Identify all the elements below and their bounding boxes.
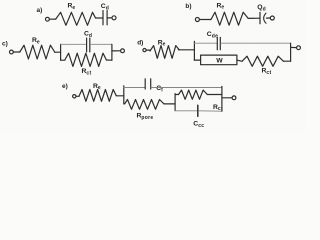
CPE Qd arc — [264, 13, 266, 23]
terminal d-left — [143, 49, 146, 52]
wire — [178, 49, 194, 51]
wire — [237, 60, 242, 61]
wire — [116, 95, 124, 97]
svg-text:d): d) — [137, 39, 143, 46]
wire — [96, 17, 103, 19]
wire — [164, 103, 175, 105]
wire inner bottom right (e) — [199, 110, 222, 112]
node: right bar (e) — [221, 86, 223, 111]
wire — [49, 18, 55, 20]
resistor Re (c) — [20, 45, 55, 59]
Warburg element W box (d) — [201, 55, 237, 65]
resistor Re (e) — [79, 90, 116, 102]
capacitor Cf (e) — [145, 79, 151, 89]
wire top branch left (c) — [61, 43, 87, 45]
node: right edge of parallel box (c) — [111, 44, 113, 60]
svg-text:c): c) — [2, 40, 8, 47]
wire inner bottom left (e) — [175, 110, 197, 112]
wire — [284, 60, 291, 62]
resistor Re (b) — [211, 12, 248, 25]
wire — [13, 51, 19, 53]
terminal c-right — [121, 49, 125, 53]
wire top branch left (d) — [194, 42, 217, 44]
terminal b-left — [195, 18, 199, 22]
resistor Rct (c) — [65, 53, 107, 66]
wire — [112, 50, 121, 52]
capacitor Cdl (d) — [217, 37, 220, 50]
wire inner top right (e) — [207, 94, 222, 96]
terminal a-left — [46, 17, 50, 21]
terminal d-right — [297, 46, 301, 50]
wire bottom branch left (d) — [194, 59, 200, 61]
resistor Rpore (e) — [125, 100, 164, 110]
resistor Rct (d) — [242, 56, 284, 66]
svg-text:e): e) — [62, 83, 68, 90]
resistor Re (d) — [150, 46, 179, 59]
capacitor Cd (a) — [103, 11, 107, 25]
terminal e-left — [73, 95, 76, 98]
wire — [200, 19, 212, 21]
resistor Rct (e) — [179, 90, 208, 99]
resistor Re (a) — [56, 12, 96, 25]
svg-text:a): a) — [37, 7, 43, 14]
wire top branch right (d) — [221, 42, 291, 44]
terminal b-right — [270, 16, 274, 20]
svg-text:W: W — [216, 58, 223, 65]
wire top branch right (e) — [151, 87, 222, 89]
wire top branch right (c) — [90, 43, 112, 45]
capacitor Cd (c) — [87, 38, 90, 52]
wire — [222, 97, 232, 99]
wire bottom branch left (c) — [61, 59, 65, 61]
wire inner top left (e) — [175, 94, 178, 96]
wire — [291, 46, 297, 48]
CPE Qd plate — [259, 12, 261, 23]
node: left junction bar (e) — [123, 86, 125, 104]
node: left edge of parallel box (d) — [193, 41, 195, 60]
capacitor Cdl (e) — [197, 105, 199, 116]
paper background — [0, 0, 306, 132]
wire — [266, 17, 270, 19]
wire — [55, 51, 61, 53]
wire bottom branch (e) — [123, 103, 126, 105]
terminal a-right — [112, 16, 116, 20]
svg-text:b): b) — [185, 3, 191, 10]
node: right edge of parallel box (d) — [290, 43, 292, 61]
node: inner left edge (e) — [174, 94, 176, 111]
wire — [76, 95, 79, 97]
node: left edge of parallel box (c) — [60, 44, 62, 60]
terminal c-left — [10, 50, 14, 54]
wire — [146, 49, 150, 51]
wire — [108, 17, 112, 19]
wire — [248, 17, 259, 19]
wire bottom branch right (c) — [106, 59, 112, 61]
terminal e-right — [232, 96, 236, 100]
wire top branch left (e) — [124, 87, 145, 89]
